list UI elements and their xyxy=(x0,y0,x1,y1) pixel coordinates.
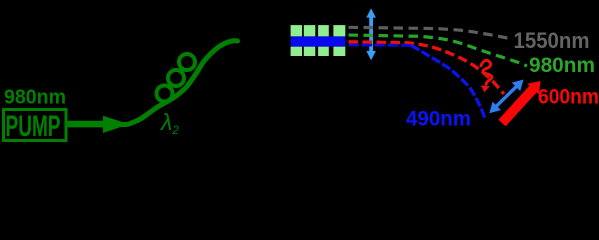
svg-text:PUMP: PUMP xyxy=(6,110,61,143)
600nm emission thick red arrow xyxy=(498,81,540,126)
490nm blue double arrow head upper xyxy=(512,80,524,92)
fiber taper curve xyxy=(122,41,238,125)
ion grid top row xyxy=(291,25,346,36)
pump arrow head xyxy=(103,116,129,133)
svg-text:980nm: 980nm xyxy=(529,54,595,77)
1550nm level line (gray dashed) xyxy=(349,27,511,38)
490nm blue double arrow head lower xyxy=(489,102,501,114)
980nm level line (green dashed) xyxy=(349,35,528,66)
svg-text:980nm: 980nm xyxy=(4,85,66,108)
600nm level line (red dashed) xyxy=(349,42,505,94)
non-radiative decay squiggle xyxy=(481,60,492,85)
svg-text:1550nm: 1550nm xyxy=(514,28,590,53)
pump arrow shaft xyxy=(65,121,105,128)
microsphere 2 xyxy=(168,70,184,86)
microsphere 1 xyxy=(157,86,173,102)
ion grid bottom row xyxy=(291,47,346,56)
490nm level line horizontal (blue dashed) xyxy=(349,44,412,47)
vertical pump double arrow xyxy=(366,8,376,60)
microsphere 3 xyxy=(179,54,195,70)
svg-text:600nm: 600nm xyxy=(538,84,599,108)
490nm level line descending (blue dashed) xyxy=(411,45,485,119)
svg-text:490nm: 490nm xyxy=(406,106,471,130)
490nm blue double arrow shaft xyxy=(496,87,516,107)
PUMP box xyxy=(4,110,67,141)
blue band through grid xyxy=(291,36,346,46)
squiggle arrowhead xyxy=(481,85,490,92)
